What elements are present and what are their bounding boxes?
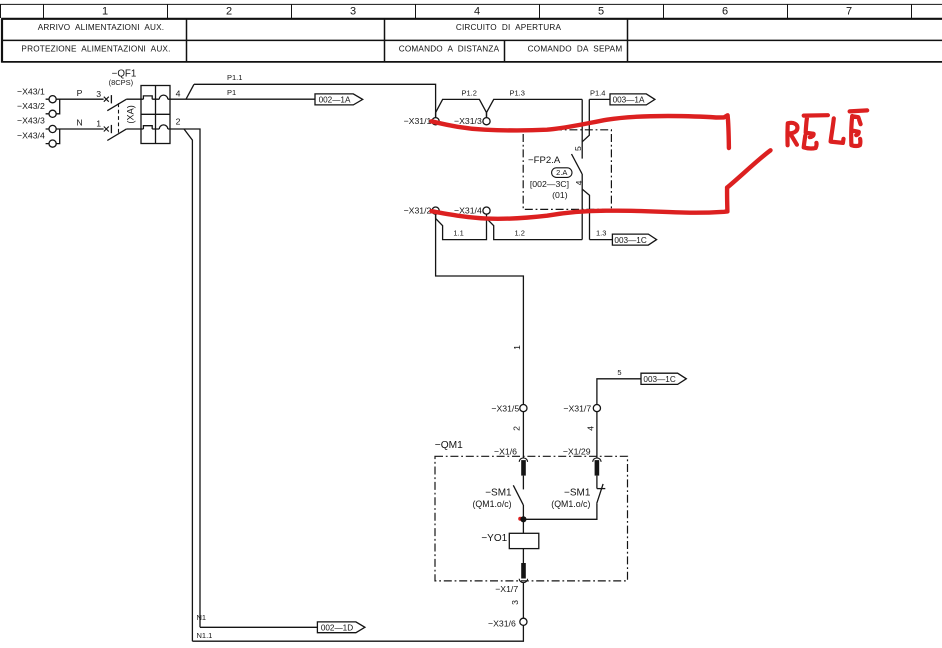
svg-text:COMANDO DA SEPAM: COMANDO DA SEPAM xyxy=(528,45,623,54)
wire riser X43/2 to P xyxy=(56,99,60,114)
svg-text:(01): (01) xyxy=(552,190,568,200)
QF1 magnetic arc bottom xyxy=(159,125,168,129)
svg-text:2.A: 2.A xyxy=(556,168,567,177)
wire N1.1 horizontal xyxy=(192,625,523,641)
svg-text:−X31/1: −X31/1 xyxy=(404,116,432,126)
svg-text:002—1D: 002—1D xyxy=(321,624,353,633)
svg-text:−X31/2: −X31/2 xyxy=(404,206,432,216)
junction node dot xyxy=(520,516,526,522)
wire X31/5 to X1/6 xyxy=(522,412,524,458)
wire P1.1 branch diagonal xyxy=(186,84,194,99)
wire SM1 left to junction xyxy=(522,505,524,519)
relay contact FP2.A dash-dot box xyxy=(523,130,611,210)
column numbers 1-7 xyxy=(102,6,852,18)
connector X1/7 pin xyxy=(521,563,526,579)
connector X1/6 pin xyxy=(521,460,526,476)
svg-text:−X31/7: −X31/7 xyxy=(563,404,591,414)
wire N1 horizontal to flag 002-1D xyxy=(200,626,317,628)
svg-text:P: P xyxy=(77,88,83,98)
terminal -X43/2 circle xyxy=(49,110,56,117)
svg-text:−X1/6: −X1/6 xyxy=(494,447,517,457)
wire P1 from QF1 pin4 to flag 002-1A xyxy=(170,98,315,100)
wire P1.3 X31/3 to FP2.A pin5 xyxy=(487,99,583,117)
svg-text:1.2: 1.2 xyxy=(515,229,525,238)
svg-text:[002—3C]: [002—3C] xyxy=(530,179,569,189)
SM1 right NC seat bar xyxy=(597,488,605,490)
svg-text:N1.1: N1.1 xyxy=(197,631,213,640)
QF1 pole 1-2 blade xyxy=(107,129,126,140)
red handwriting E1 xyxy=(804,115,828,148)
svg-text:1.3: 1.3 xyxy=(596,228,606,237)
svg-text:N: N xyxy=(76,118,82,128)
svg-text:−SM1: −SM1 xyxy=(485,487,512,498)
QF1 pole 3-4 contact cross xyxy=(104,97,109,102)
red annotation lower line xyxy=(432,188,728,219)
svg-text:7: 7 xyxy=(846,6,852,18)
QF1 thermal hump top xyxy=(143,96,152,99)
svg-text:−X31/6: −X31/6 xyxy=(488,619,516,629)
terminal -X31/2 circle xyxy=(432,207,439,214)
wire 1.2 X31/4 to FP2.A pin4 xyxy=(487,218,583,239)
title block: header table frame xyxy=(1,19,942,63)
QF1 magnetic arc top xyxy=(159,95,168,99)
wire N from X43/3 to QF1 pin1 xyxy=(56,128,103,130)
QF1 thermal hump bottom xyxy=(143,126,152,129)
svg-text:ARRIVO ALIMENTAZIONI AUX.: ARRIVO ALIMENTAZIONI AUX. xyxy=(38,23,165,32)
svg-text:−FP2.A: −FP2.A xyxy=(528,155,561,166)
wire SM1 right down and to junction xyxy=(523,504,597,520)
svg-text:002—1A: 002—1A xyxy=(319,96,351,105)
flag 002-1D xyxy=(317,622,365,633)
svg-text:5: 5 xyxy=(598,6,604,18)
wire X1/7 to X31/6 xyxy=(522,583,524,619)
wire YO1 to X1/7 xyxy=(522,549,524,563)
svg-text:P1.2: P1.2 xyxy=(462,89,477,98)
svg-text:N1: N1 xyxy=(197,613,207,622)
svg-text:3: 3 xyxy=(350,6,356,18)
svg-text:6: 6 xyxy=(722,6,728,18)
branch diagonal to P1.4 xyxy=(582,99,589,141)
svg-text:−YO1: −YO1 xyxy=(481,533,507,544)
svg-text:2: 2 xyxy=(512,426,522,431)
terminal -X31/1 circle xyxy=(432,118,439,125)
connector X1/7 socket arc xyxy=(519,579,527,583)
coil YO1 box xyxy=(509,533,539,548)
svg-text:2: 2 xyxy=(226,6,232,18)
terminal -X31/5 circle xyxy=(520,405,527,412)
svg-text:−X1/7: −X1/7 xyxy=(495,584,518,594)
svg-text:−X1/29: −X1/29 xyxy=(563,447,591,457)
wire 1 from X31/2 down with jog to X31/5 xyxy=(436,214,524,404)
FP2.A pin4 vertical to wire 1.2 xyxy=(581,174,583,240)
svg-text:P1: P1 xyxy=(227,88,236,97)
svg-text:4: 4 xyxy=(176,88,181,98)
svg-text:1.1: 1.1 xyxy=(453,229,463,238)
small red mark at junction xyxy=(518,517,522,521)
svg-text:3: 3 xyxy=(96,89,101,99)
red annotation upper line xyxy=(432,115,729,148)
FP2.A pin5 vertical xyxy=(581,99,583,158)
terminal -X43/1 circle xyxy=(49,96,56,103)
terminal -X31/3 circle xyxy=(483,118,490,125)
connector X1/29 pin xyxy=(595,460,600,476)
wire 1.3 to flag 003-1C xyxy=(590,239,613,241)
svg-text:−X43/2: −X43/2 xyxy=(17,101,45,111)
wire X31/7 to X1/29 xyxy=(596,412,598,458)
flag 002-1A xyxy=(315,94,363,105)
FP2.A contact blade xyxy=(572,154,583,174)
wire 1.1 X31/2 to X31/4 xyxy=(436,214,487,239)
wire riser X43/4 to N xyxy=(56,129,60,144)
QF1 mechanical link dashed xyxy=(118,103,120,134)
wire segments through QF1 box xyxy=(126,99,170,129)
flag 003-1C middle xyxy=(641,373,686,384)
wire junction to YO1 xyxy=(522,519,524,533)
QF1 pole 1-2 contact cross xyxy=(104,127,109,132)
svg-text:(XA): (XA) xyxy=(126,105,136,123)
red annotation diagonal to RELE xyxy=(727,150,770,187)
flag 003-1C top xyxy=(612,234,656,245)
svg-text:−QM1: −QM1 xyxy=(435,440,463,451)
QF1 pole 3-4 fixed seat xyxy=(110,95,112,103)
terminal -X31/6 circle xyxy=(520,618,527,625)
red handwriting R xyxy=(787,123,797,145)
svg-text:P1.1: P1.1 xyxy=(227,73,242,82)
QF1 pole 1-2 fixed seat xyxy=(110,125,112,133)
svg-text:2: 2 xyxy=(176,116,181,126)
wire P1.1 horizontal and drop to X31/1 xyxy=(194,84,436,117)
wire X1/6 to SM1 xyxy=(522,476,524,490)
terminal -X43/3 circle xyxy=(49,125,56,132)
svg-text:(QM1.o/c): (QM1.o/c) xyxy=(472,499,511,509)
QF1 trip unit box xyxy=(141,86,170,144)
svg-text:P1.3: P1.3 xyxy=(510,89,525,98)
svg-text:4: 4 xyxy=(585,426,595,431)
svg-text:003—1C: 003—1C xyxy=(614,236,646,245)
svg-text:P1.4: P1.4 xyxy=(590,88,605,97)
QM1 dash-dot box xyxy=(435,456,628,581)
wire N1.1 branch diagonal and vertical xyxy=(184,129,192,641)
svg-text:5: 5 xyxy=(573,146,583,151)
FP2.A (2.A) stadium xyxy=(552,168,572,178)
SM1 left NO contact blade xyxy=(513,485,523,505)
svg-text:−X43/4: −X43/4 xyxy=(17,131,45,141)
connector X1/29 socket arc xyxy=(593,458,601,462)
flag 003-1A xyxy=(610,94,655,105)
svg-text:3: 3 xyxy=(510,600,520,605)
QF1 trip unit box dividers xyxy=(141,86,170,144)
terminal -X31/4 circle xyxy=(483,207,490,214)
QF1 pole 3-4 blade xyxy=(107,99,126,110)
title block: column number strip borders xyxy=(0,4,942,18)
wire X1/29 to SM1 xyxy=(596,476,598,489)
svg-text:−X43/3: −X43/3 xyxy=(17,116,45,126)
stub wires at X43 terminals xyxy=(46,99,49,143)
SM1 right NC blade xyxy=(597,484,603,504)
svg-text:−SM1: −SM1 xyxy=(564,487,591,498)
red handwriting L xyxy=(831,118,844,142)
wire P1.4 to flag 003-1A xyxy=(589,98,610,100)
svg-text:5: 5 xyxy=(617,368,621,377)
svg-text:COMANDO A DISTANZA: COMANDO A DISTANZA xyxy=(399,45,500,54)
red handwriting E2 macron xyxy=(850,110,868,111)
svg-text:1: 1 xyxy=(512,345,522,350)
svg-text:CIRCUITO DI APERTURA: CIRCUITO DI APERTURA xyxy=(456,23,562,32)
connector X1/6 socket arc xyxy=(519,458,527,462)
wire 5 from X31/7 to flag 003-1C xyxy=(597,379,641,405)
svg-text:−X43/1: −X43/1 xyxy=(17,87,45,97)
svg-text:003—1C: 003—1C xyxy=(643,375,675,384)
red handwriting E2 xyxy=(851,116,860,146)
branch diagonal to wire 1.3 xyxy=(582,189,589,240)
svg-text:1: 1 xyxy=(96,119,101,129)
svg-text:4: 4 xyxy=(474,6,480,18)
wire P from X43/1 to QF1 pin3 xyxy=(56,98,103,100)
svg-text:(QM1.o/c): (QM1.o/c) xyxy=(551,499,590,509)
svg-text:1: 1 xyxy=(102,6,108,18)
terminal -X43/4 circle xyxy=(49,140,56,147)
wire 2/N from QF1 pin2 xyxy=(170,129,200,627)
svg-text:003—1A: 003—1A xyxy=(613,96,645,105)
svg-text:PROTEZIONE ALIMENTAZIONI AUX: PROTEZIONE ALIMENTAZIONI AUX. xyxy=(21,45,170,54)
svg-text:(8CPS): (8CPS) xyxy=(109,78,134,87)
terminal -X31/7 circle xyxy=(593,405,600,412)
wire P1.2 X31/1 to X31/3 xyxy=(436,99,487,117)
svg-text:−X31/5: −X31/5 xyxy=(491,404,519,414)
